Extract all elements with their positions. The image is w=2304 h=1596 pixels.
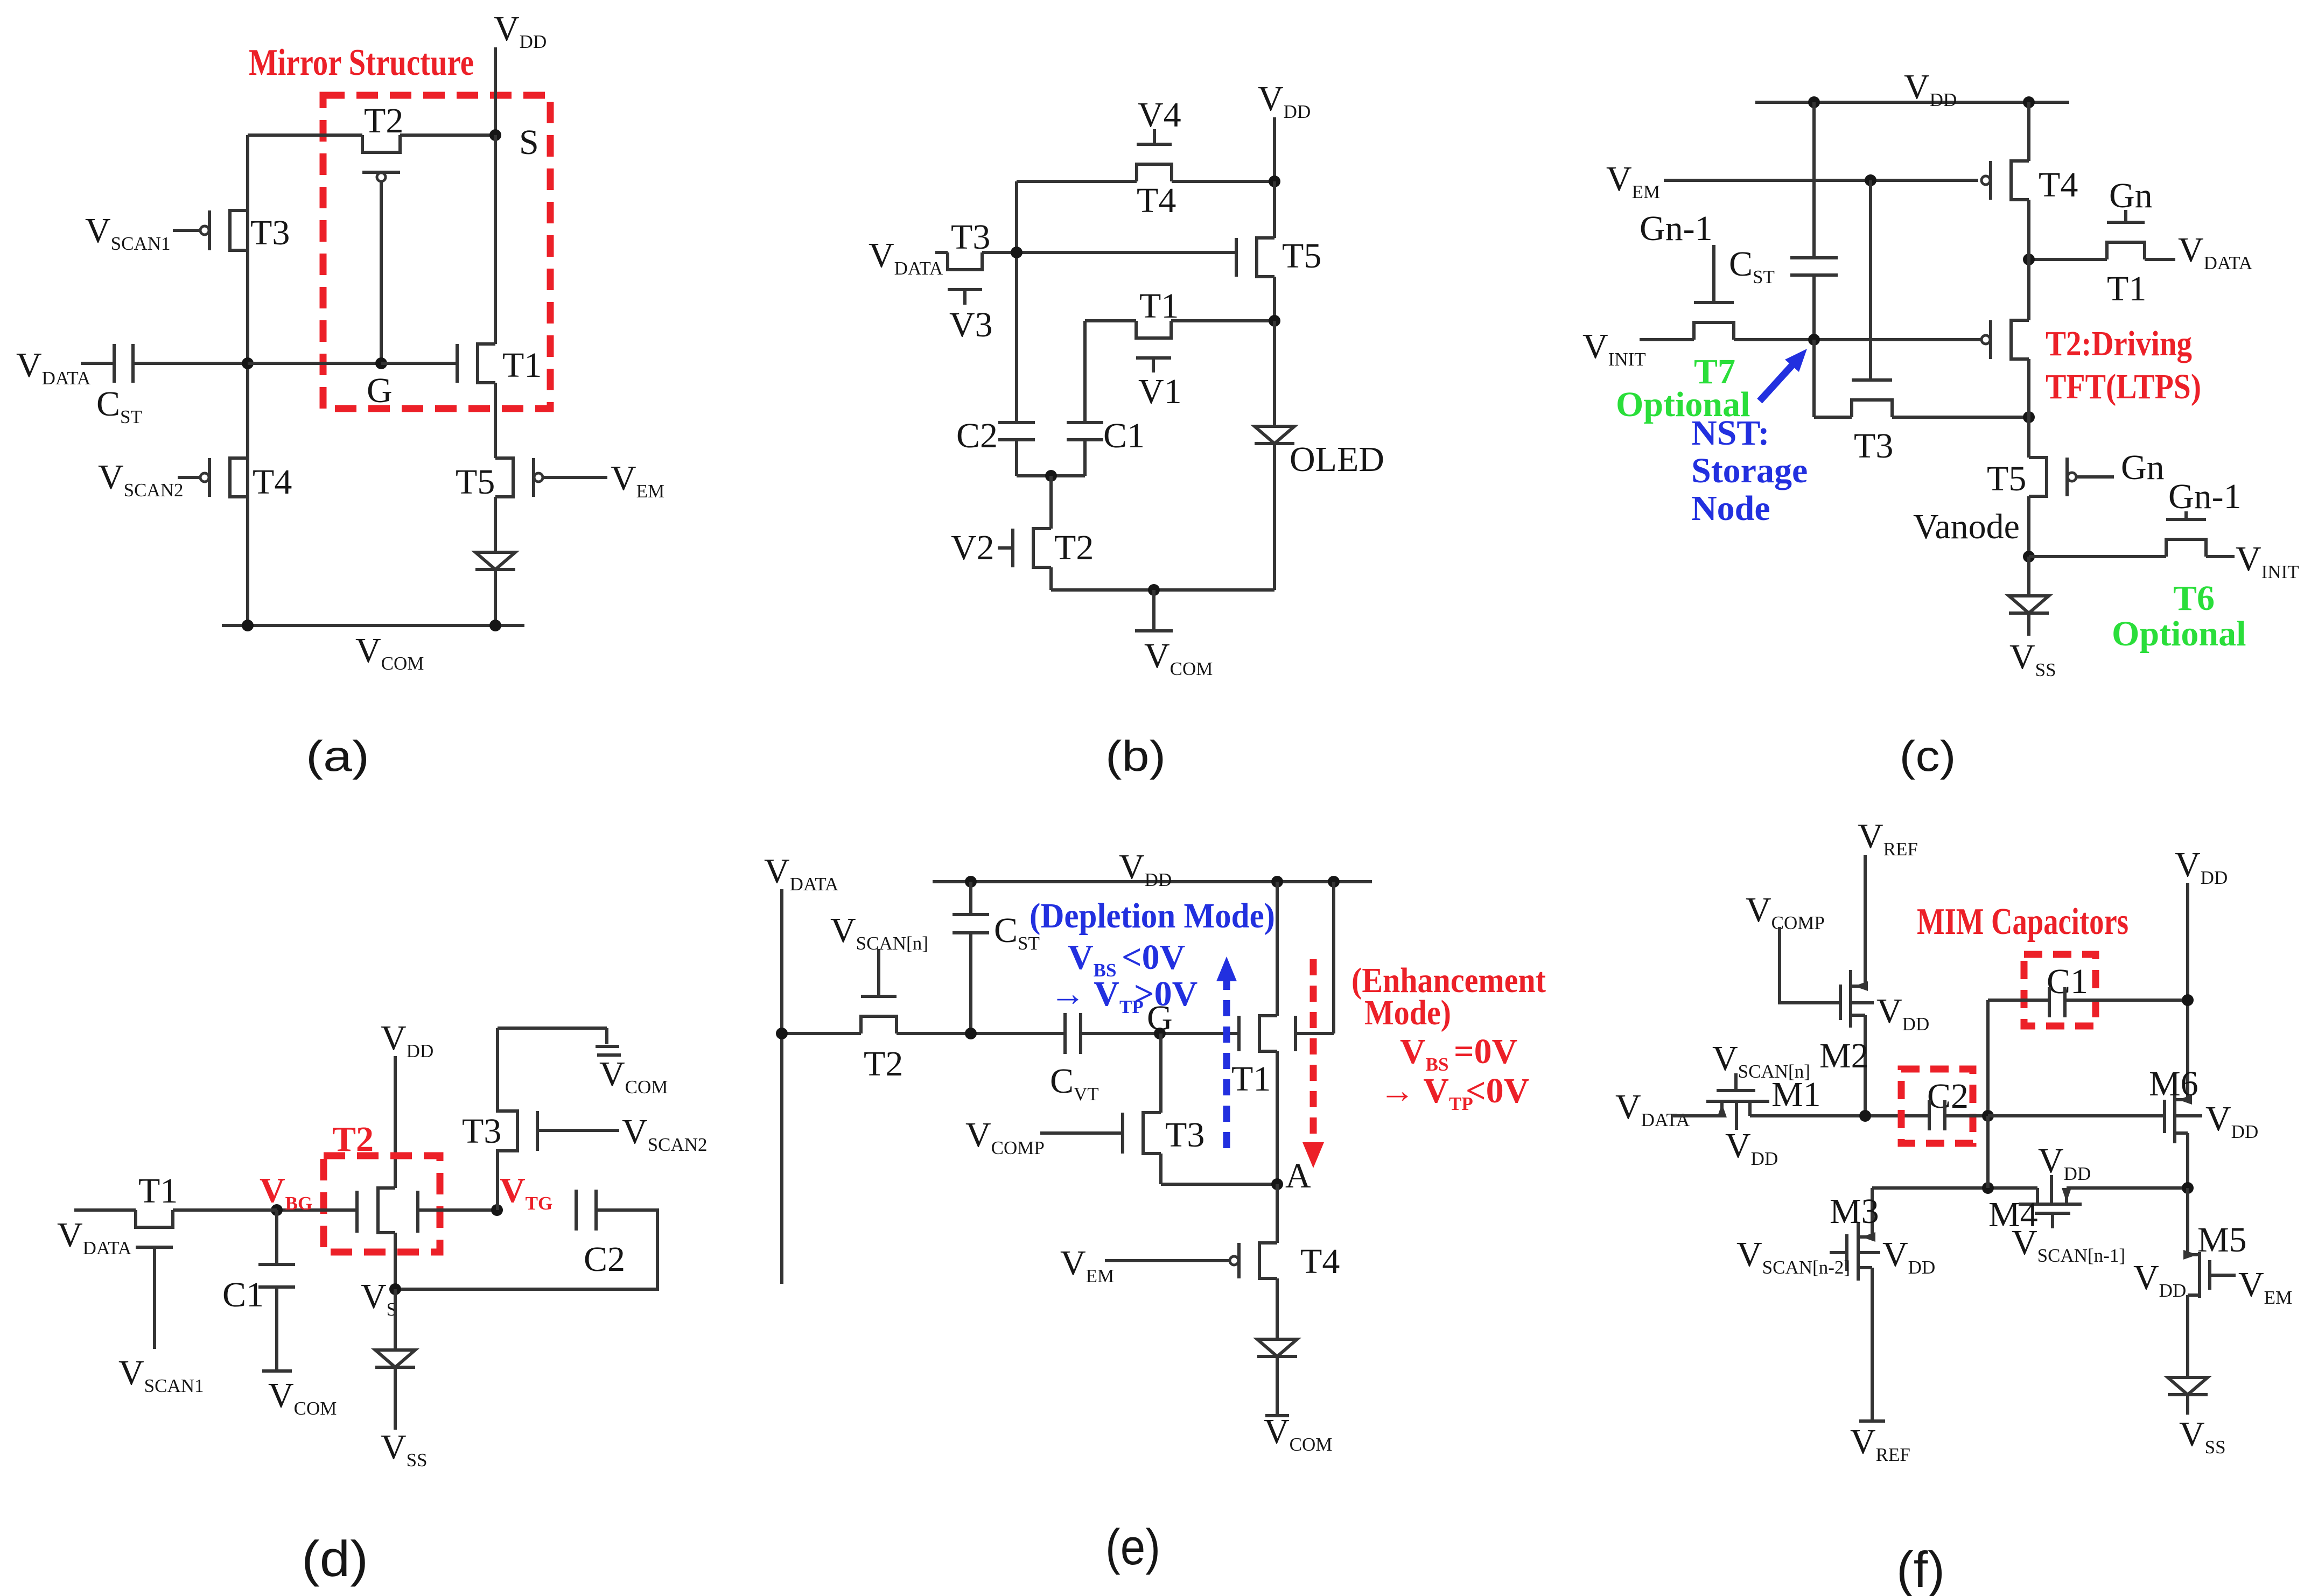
wire T2 to VS (d) (394, 1233, 397, 1289)
wire A to T4 (e) (1276, 1184, 1279, 1243)
wire T4 to node (c) (2027, 200, 2030, 259)
svg-text:(e): (e) (1105, 1518, 1160, 1575)
wire T1 to VDATA (c) (2145, 258, 2175, 261)
svg-text:Mode): Mode) (1364, 993, 1451, 1032)
svg-text:Gn-1: Gn-1 (2168, 477, 2242, 516)
wire bottom rail VCOM (a) (222, 624, 524, 627)
wire C2 right loop (d) (395, 1210, 657, 1289)
wire left column (a) (246, 135, 249, 625)
svg-text:C2: C2 (956, 416, 998, 455)
node row left (f) (1982, 1182, 1994, 1194)
terminal VCOM (b) (1152, 590, 1155, 630)
svg-text:T2: T2 (864, 1044, 903, 1084)
node row right (f) (2182, 1182, 2194, 1194)
OLED diode (b) (1273, 321, 1276, 426)
svg-text:T1: T1 (502, 346, 542, 385)
wire rail to T1 (e) (1276, 882, 1279, 1016)
capacitor CVT (e) (1063, 1013, 1067, 1054)
svg-text:(f): (f) (1896, 1541, 1945, 1596)
wire T3 gate vertical (c) (1869, 180, 1872, 380)
transistor T4 (b) (1137, 164, 1172, 181)
transistor T2 driving (c) (2011, 320, 2029, 359)
capacitor CST (a) (113, 344, 116, 383)
OLED diode (d) (394, 1289, 397, 1350)
svg-text:>0V: >0V (1134, 974, 1197, 1014)
wire T1 to right column (b) (1171, 319, 1274, 322)
node T1/T2 (c) (2023, 254, 2035, 265)
node T1 rail (e) (1271, 876, 1283, 888)
red dashed box C1 (f) (2024, 954, 2096, 1026)
svg-text:T2: T2 (1054, 528, 1094, 567)
wire VDD vertical (b) (1273, 117, 1276, 181)
svg-text:Optional: Optional (2112, 614, 2246, 653)
capacitor C1 (b) (1067, 421, 1103, 424)
svg-text:T5: T5 (456, 462, 495, 502)
node Vanode (c) (2023, 551, 2035, 563)
transistor T3 (b) (948, 252, 982, 270)
wire CVT to G (e) (1081, 1032, 1239, 1035)
subfigure (c) pixel circuit (1582, 67, 2299, 780)
svg-text:V1: V1 (1138, 372, 1182, 411)
svg-text:C1: C1 (222, 1275, 264, 1314)
svg-text:T1: T1 (1231, 1059, 1271, 1099)
svg-text:Gn: Gn (2109, 176, 2153, 215)
wire VTG lead (d) (418, 1208, 497, 1212)
wire C1 vertical (b) (1083, 321, 1087, 423)
wire VDATA lead (b) (935, 251, 948, 254)
svg-text:M2: M2 (1819, 1036, 1869, 1075)
svg-text:C2: C2 (584, 1240, 625, 1279)
wire T5 to T1 node (b) (1273, 181, 1276, 238)
wire T2 to node (c) (2027, 359, 2030, 417)
wire T2 to CVT (e) (897, 1032, 1065, 1035)
svg-text:M6: M6 (2149, 1064, 2198, 1103)
OLED diode (c) (2027, 557, 2030, 596)
node A (e) (1271, 1178, 1283, 1190)
wire T3 gate lead (d) (537, 1129, 619, 1132)
svg-text:T5: T5 (1282, 236, 1321, 276)
svg-text:Node: Node (1691, 489, 1770, 528)
wire T3 to node A (e) (1159, 1154, 1162, 1184)
transistor M5 (f) (2186, 1188, 2189, 1255)
node CST row junction (e) (965, 1028, 977, 1039)
wire C2 bottom (b) (1015, 440, 1018, 476)
wire CST to NST (c) (1812, 275, 1816, 340)
transistor T1 (d) (74, 1208, 136, 1212)
node rail right (c) (2023, 96, 2035, 108)
svg-text:C1: C1 (2047, 962, 2088, 1001)
node M2 source (f) (1859, 1110, 1871, 1122)
svg-text:NST:: NST: (1691, 413, 1769, 453)
subfigure (d) pixel circuit (57, 1018, 708, 1587)
node C2 right (f) (1982, 1110, 1994, 1122)
capacitor C2 (d) (575, 1190, 578, 1231)
OLED diode (e) (1276, 1278, 1279, 1339)
wire T1 row (b) (1085, 319, 1136, 322)
wire VDD rail (e) (933, 880, 1372, 883)
wire VBG to C1 (d) (275, 1210, 278, 1264)
svg-text:(a): (a) (306, 732, 369, 780)
capacitor C2 (b) (998, 421, 1035, 424)
wire rail to T4 (c) (2027, 102, 2030, 161)
node C1 right (f) (2182, 994, 2194, 1006)
transistor T4 (e) (1259, 1243, 1277, 1278)
node backgate rail (e) (1328, 876, 1340, 888)
node T1 drain (b) (1269, 315, 1280, 327)
node data junction (b) (1011, 247, 1023, 258)
transistor T3 (a) (230, 210, 248, 250)
capacitor C1 (d) (258, 1263, 295, 1266)
transistor T7 (c) (1694, 322, 1734, 340)
subfigure (e) pixel circuit (764, 847, 1546, 1575)
svg-text:T1: T1 (2107, 269, 2146, 308)
wire node to T5 (c) (2027, 417, 2030, 458)
wire C1 left down (f) (1986, 1000, 1990, 1116)
svg-text:T4: T4 (2039, 165, 2078, 205)
wire CST to node (a) (133, 362, 248, 365)
blue arrow to NST node (c) (1760, 360, 1797, 401)
wire T1 to node A (e) (1276, 1051, 1279, 1184)
transistor T2 (b) (1033, 529, 1051, 567)
transistor T5 (a) (495, 458, 513, 497)
wire M1 to C2 (f) (1750, 1114, 1929, 1117)
wire M3 source to VREF (f) (1858, 1266, 1872, 1269)
blue dashed arrow depletion (e) (1223, 974, 1230, 1148)
subfigure (f) pixel circuit (1615, 817, 2292, 1596)
transistor T3 (c) (1852, 400, 1892, 417)
wire left column (b) (1015, 181, 1018, 423)
svg-text:T1: T1 (138, 1171, 178, 1211)
svg-text:Gn: Gn (2121, 448, 2165, 487)
node VBG (d) (271, 1204, 283, 1216)
transistor T1 (a) (478, 344, 495, 383)
svg-text:V3: V3 (949, 305, 993, 344)
svg-text:T2: T2 (364, 101, 403, 140)
svg-text:Mirror Structure: Mirror Structure (249, 42, 474, 83)
capacitor CST (e) (969, 882, 972, 915)
wire T1 to T5 (a) (494, 383, 497, 458)
red dashed arrow enhancement (e) (1310, 959, 1317, 1149)
svg-text:Vanode: Vanode (1913, 507, 2020, 546)
svg-text:M5: M5 (2197, 1220, 2247, 1260)
wire C1 bottom (b) (1083, 440, 1087, 476)
svg-text:Storage: Storage (1691, 451, 1808, 490)
transistor M2 (f) (1839, 985, 1842, 1020)
svg-text:T6: T6 (2173, 579, 2215, 618)
node G (e) (1154, 1028, 1166, 1039)
T1 back gate (e) (1294, 1016, 1297, 1051)
node rail left (c) (1808, 96, 1820, 108)
wire VDD column (f) (2186, 883, 2189, 1100)
wire node to T1 gate (a) (248, 362, 381, 365)
svg-text:M3: M3 (1830, 1192, 1879, 1231)
wire top rail VDD (c) (1755, 101, 2069, 104)
wire data row (e) (782, 1032, 861, 1035)
svg-text:(b): (b) (1105, 732, 1166, 780)
svg-text:A: A (1285, 1156, 1311, 1196)
wire storage to T2 (b) (1049, 476, 1053, 529)
svg-text:(d): (d) (302, 1530, 368, 1587)
transistor T5 (b) (1257, 238, 1274, 277)
subfigure (b) pixel circuit (869, 79, 1384, 780)
svg-text:V2: V2 (951, 528, 995, 567)
wire CST vertical top (c) (1812, 102, 1816, 258)
transistor T3 (e) (1143, 1113, 1161, 1154)
wire C2 node to M6 gate (f) (1988, 1114, 2165, 1117)
svg-text:S: S (519, 123, 539, 162)
wire right column upper (a) (494, 135, 497, 344)
transistor M4 (f) (2036, 1188, 2039, 1204)
wire VBG lead (d) (277, 1208, 357, 1212)
wire cap join (b) (1017, 474, 1085, 477)
wire T5 to anode node (c) (2027, 496, 2030, 557)
wire T6 to VINIT (c) (2206, 555, 2235, 558)
wire C2-row link (f) (1986, 1116, 1990, 1188)
svg-text:G: G (367, 371, 393, 410)
transistor T5 (c) (2029, 458, 2047, 496)
transistor M6 (f) (2163, 1100, 2166, 1133)
wire top rail (b) (1017, 180, 1137, 183)
wire VDATA to capacitor (a) (81, 362, 114, 365)
svg-text:T4: T4 (1300, 1242, 1340, 1281)
svg-text:(Depletion Mode): (Depletion Mode) (1030, 896, 1275, 936)
node VTG (d) (491, 1204, 503, 1216)
node VEM/T3 gate (c) (1865, 174, 1876, 186)
svg-text:OLED: OLED (1290, 440, 1384, 479)
red dashed box around T2 (d) (324, 1156, 440, 1252)
wire VREF to M2 (f) (1864, 855, 1867, 986)
svg-text:C2: C2 (1927, 1077, 1969, 1116)
transistor T3 (d) (498, 1028, 517, 1210)
wire VDATA column (e) (780, 889, 783, 1284)
node VCOM tap (b) (1148, 584, 1160, 596)
svg-text:=0V: =0V (1454, 1032, 1517, 1071)
node G (a) (375, 357, 387, 369)
wire T3 to junction (b) (982, 251, 1236, 254)
transistor T2 (e) (861, 1016, 897, 1033)
wire NST column to T3 (c) (1812, 340, 1816, 417)
wire VDD vertical (a) (494, 47, 497, 135)
svg-text:T2:Driving: T2:Driving (2046, 324, 2192, 363)
wire node row (f) (1872, 1186, 2037, 1190)
svg-text:T4: T4 (253, 462, 292, 502)
svg-text:V4: V4 (1138, 95, 1181, 135)
svg-text:T3: T3 (1854, 426, 1893, 466)
wire node to T2 (c) (2027, 259, 2030, 320)
wire T3 top to VCOM terminal (d) (498, 1026, 607, 1030)
node CST rail (e) (965, 876, 977, 888)
wire G down to T3 (e) (1159, 1033, 1162, 1113)
transistor M1 (f) (1672, 1114, 1722, 1117)
node VDATA row (e) (776, 1028, 788, 1039)
node T3/T2/T5 (c) (2023, 411, 2035, 423)
transistor T2 (a) (362, 135, 400, 152)
svg-text:C1: C1 (1103, 416, 1145, 455)
capacitor CST (c) (1790, 256, 1838, 259)
wire VDD vertical (d) (394, 1056, 397, 1188)
terminal VCOM below C1 (d) (275, 1287, 278, 1371)
wire T1 to VBG (d) (173, 1208, 277, 1212)
wire anode row (c) (2029, 555, 2166, 558)
transistor T1 (b) (1136, 321, 1171, 338)
svg-text:T3: T3 (1165, 1115, 1204, 1155)
wire NST horizontal (c) (1640, 338, 1694, 341)
transistor M3 (f) (1871, 1188, 1874, 1237)
OLED diode (a) (494, 497, 497, 552)
node bottom left (a) (242, 620, 254, 631)
wire top horizontal (a) (248, 133, 362, 137)
red dashed box around mirror structure T1/T2 (323, 95, 550, 409)
transistor T2 dual-gate (d) (378, 1188, 395, 1233)
transistor T4 (a) (230, 458, 248, 497)
node storage (b) (1045, 470, 1057, 482)
transistor T1 (c) (2029, 258, 2107, 261)
svg-text:T3: T3 (462, 1112, 501, 1151)
svg-text:<0V: <0V (1122, 938, 1185, 977)
svg-text:<0V: <0V (1466, 1071, 1529, 1110)
node top right (b) (1269, 175, 1280, 187)
wire M6 source down (f) (2186, 1133, 2189, 1188)
svg-text:Gn-1: Gn-1 (1640, 209, 1713, 248)
transistor T1 (e) (1259, 1016, 1277, 1051)
red dashed box C2 (f) (1901, 1069, 1973, 1143)
wire bottom rail (b) (1049, 567, 1053, 590)
svg-text:T3: T3 (250, 213, 290, 252)
wire T2 gate to node G (a) (380, 181, 383, 363)
wire VEM horizontal (c) (1664, 179, 1978, 182)
svg-text:(c): (c) (1900, 732, 1956, 780)
node VS (d) (389, 1283, 401, 1295)
node VDATA-column junction (a) (242, 357, 254, 369)
node S (a) (489, 129, 501, 141)
subfigure (a) pixel circuit (16, 9, 664, 780)
wire T3 to right column (c) (1892, 416, 2029, 419)
OLED diode (f) (2168, 1377, 2208, 1395)
node bottom right (a) (489, 620, 501, 631)
svg-text:T4: T4 (1137, 181, 1176, 220)
svg-text:T5: T5 (1987, 459, 2026, 498)
svg-text:TFT(LTPS): TFT(LTPS) (2046, 367, 2201, 406)
transistor T6 (c) (2166, 539, 2206, 557)
transistor T4 (c) (2011, 161, 2029, 200)
svg-text:MIM Capacitors: MIM Capacitors (1917, 901, 2128, 943)
wire VCOMP to M2 gate (f) (1780, 927, 1840, 1003)
node NST (c) (1808, 334, 1820, 346)
